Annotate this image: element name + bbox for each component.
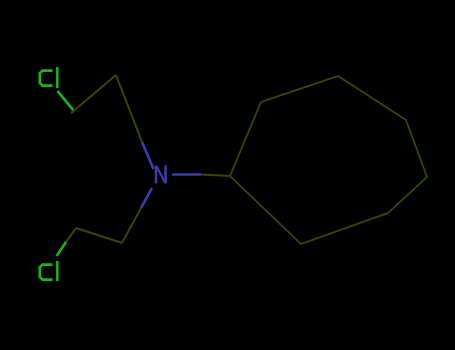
wire C1-C2 xyxy=(71,75,116,113)
wire Cl1-C1 carbon half xyxy=(71,111,74,113)
chlorine Cl (bottom-left) letter C xyxy=(40,265,53,280)
wire D1-Cl2 green half xyxy=(57,242,67,256)
chlorine Cl (top-left) letter C xyxy=(40,71,53,86)
wire C2-N blue half xyxy=(142,142,154,169)
wire N-D2 blue half xyxy=(141,188,152,208)
wire C2-N carbon half xyxy=(116,75,142,142)
wire N-ring carbon half xyxy=(201,175,230,177)
wire D1-Cl2 carbon half xyxy=(66,228,76,242)
wire D2-D1 xyxy=(76,228,122,243)
nitrogen N letter: left stem xyxy=(155,165,158,183)
wire Cl1-C1 green half xyxy=(58,91,75,111)
wire N-D2 carbon half xyxy=(122,208,141,243)
chlorine Cl (top-left) letter l xyxy=(56,67,59,88)
nitrogen N letter: right stem xyxy=(164,165,167,183)
chlorine Cl (bottom-left) letter l xyxy=(56,261,59,281)
wire N-ring blue half xyxy=(172,173,201,176)
nitrogen N letter: diagonal xyxy=(156,166,165,183)
ring cycloheptane xyxy=(230,76,427,244)
